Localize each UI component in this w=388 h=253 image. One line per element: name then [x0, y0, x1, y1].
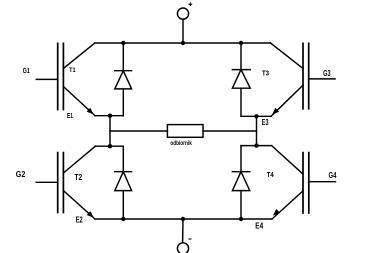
svg-text:G2: G2: [16, 169, 26, 179]
svg-text:G1: G1: [23, 66, 30, 75]
wire G3 gate lead: [309, 78, 335, 80]
wire middle rail right: [203, 130, 257, 132]
node top-left junction: [121, 41, 125, 45]
svg-text:T3: T3: [262, 69, 269, 78]
svg-text:E2: E2: [76, 214, 83, 224]
wire E1 segment: [95, 115, 123, 117]
transistor T3: [271, 43, 309, 116]
load resistor odbiornik: [167, 125, 203, 138]
svg-text:T4: T4: [267, 170, 275, 179]
diode D3: [232, 43, 250, 116]
svg-text:E1: E1: [67, 111, 73, 120]
node top-right junction: [239, 41, 243, 45]
node E1: [108, 114, 112, 118]
node left mid junction: [108, 144, 112, 148]
node plus junction: [181, 41, 185, 45]
node bottom-right junction: [239, 217, 243, 221]
node right mid junction: [254, 143, 258, 147]
svg-text:G4: G4: [329, 170, 337, 180]
wire left mid horizontal: [95, 145, 123, 147]
node bottom-left junction: [121, 217, 125, 221]
diode D1: [115, 43, 132, 116]
wire: [182, 19, 184, 43]
svg-text:T2: T2: [75, 172, 83, 182]
wire G4 gate lead: [309, 181, 336, 183]
wire G2 gate lead: [36, 181, 58, 183]
wire middle rail left: [110, 130, 167, 132]
diode D2: [115, 146, 132, 219]
svg-text:odbiornik: odbiornik: [170, 140, 192, 147]
minus sign label: [189, 238, 191, 240]
wire bottom rail: [95, 218, 272, 220]
diode D4: [232, 146, 249, 219]
wire E3 segment: [241, 115, 271, 117]
wire right mid horizontal: [241, 145, 272, 147]
svg-text:E3: E3: [262, 118, 269, 127]
wire top rail: [95, 42, 271, 44]
svg-text:G3: G3: [323, 69, 331, 78]
positive supply terminal: [177, 8, 188, 19]
negative supply terminal: [177, 243, 188, 253]
plus sign label: [189, 3, 192, 6]
node E3: [254, 114, 258, 118]
transistor T2: [58, 146, 96, 219]
transistor T4: [272, 146, 309, 219]
transistor T1: [58, 43, 95, 116]
wire G1 gate lead: [36, 78, 57, 80]
svg-text:E4: E4: [255, 222, 263, 231]
wire right midpoint vertical: [256, 116, 258, 145]
wire: [182, 219, 184, 243]
node minus junction: [181, 217, 185, 221]
svg-text:T1: T1: [69, 67, 76, 74]
wire left midpoint vertical: [109, 116, 111, 147]
